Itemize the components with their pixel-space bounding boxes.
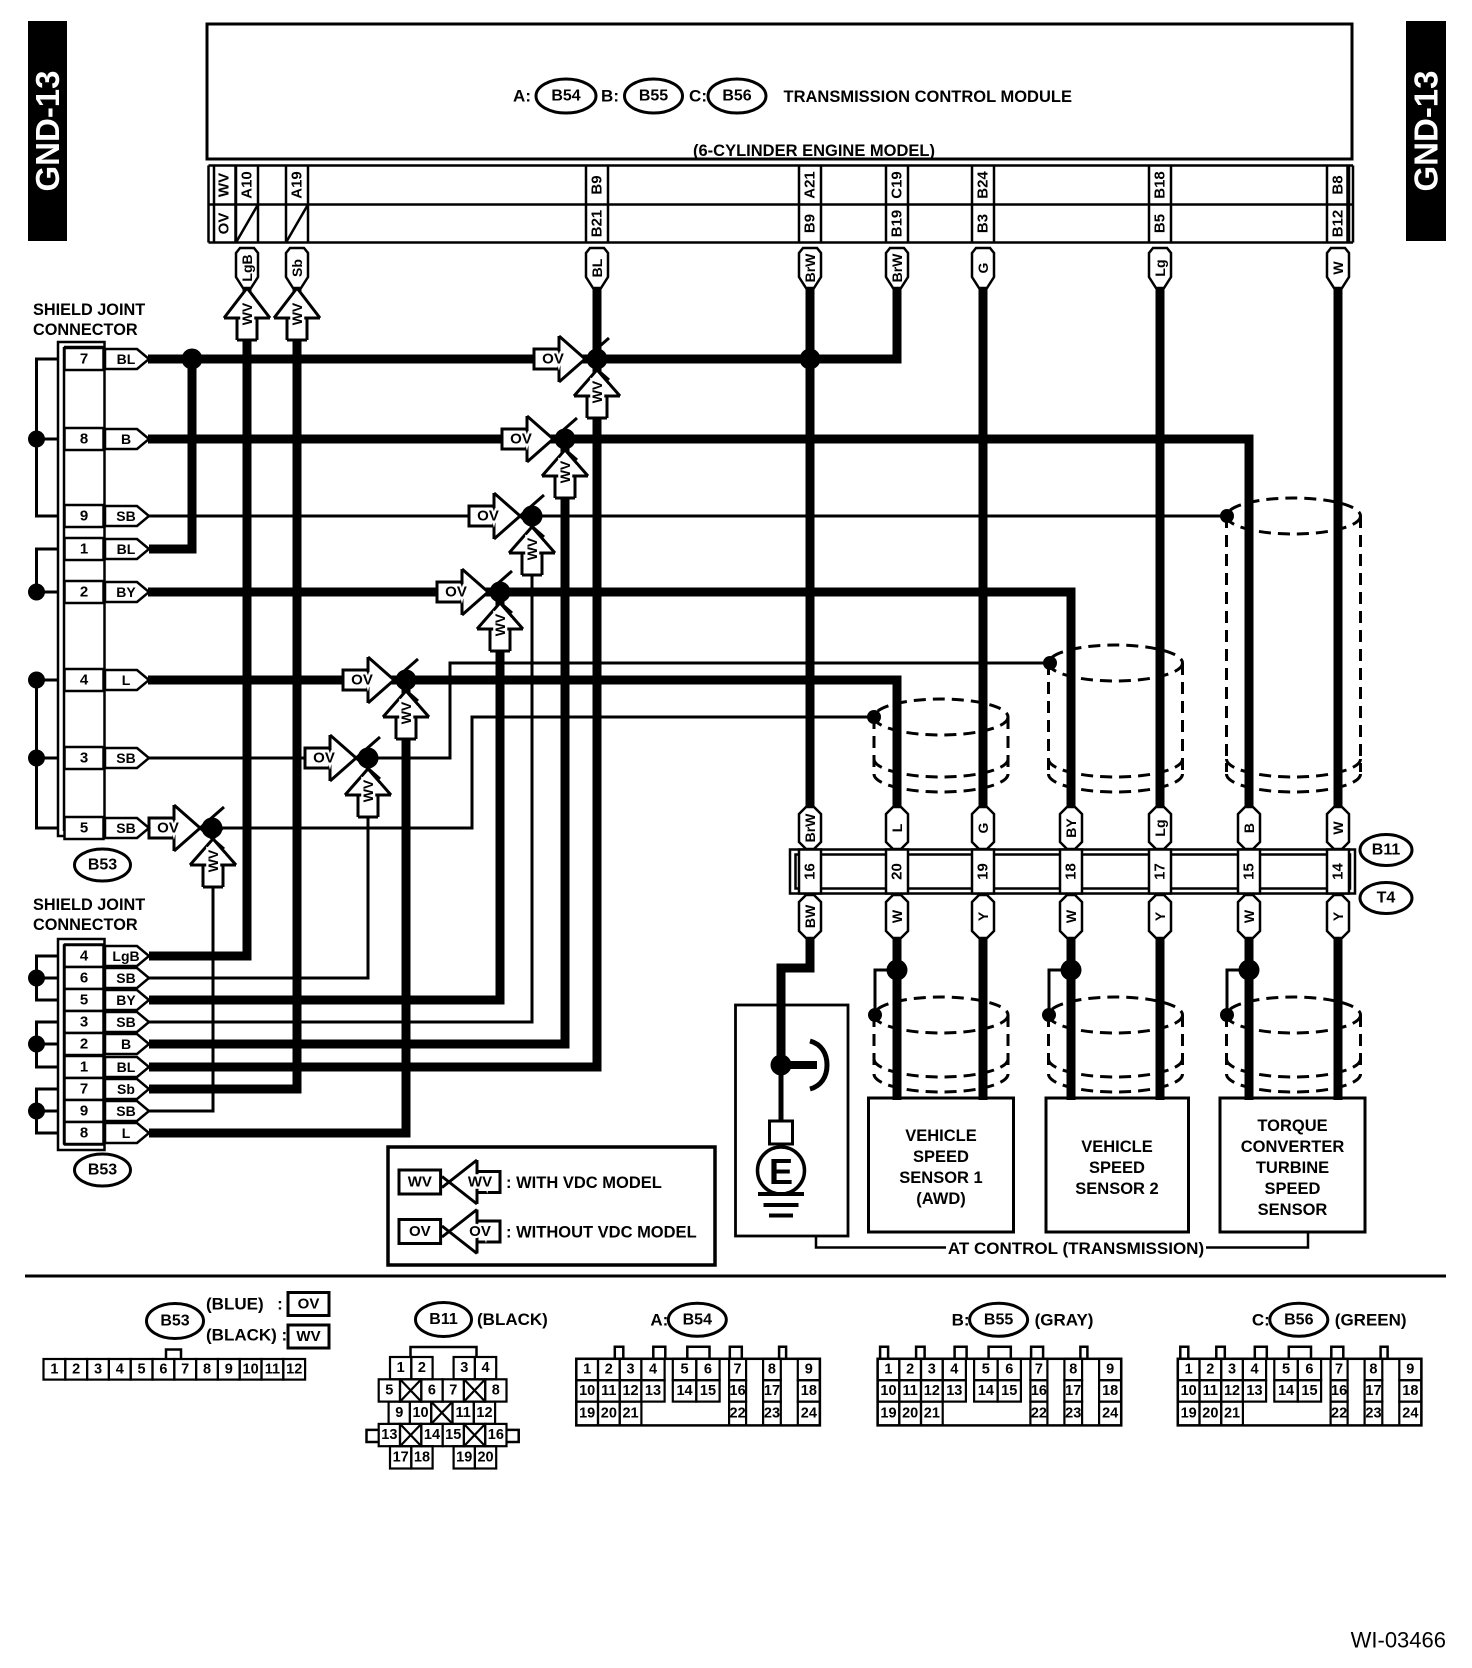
svg-text:15: 15 bbox=[700, 1383, 716, 1399]
svg-text:B53: B53 bbox=[88, 1162, 117, 1179]
svg-text:(BLUE): (BLUE) bbox=[206, 1295, 264, 1314]
TCM pin A19 bbox=[286, 166, 308, 243]
connector B53 lower pin 7 Sb bbox=[65, 1078, 150, 1100]
svg-text:11: 11 bbox=[265, 1361, 280, 1377]
wire SB row: upper B53 pin 5 to sensor1 shield bbox=[148, 717, 874, 828]
svg-text:(BLACK): (BLACK) bbox=[477, 1310, 548, 1329]
svg-text:7: 7 bbox=[80, 351, 88, 368]
svg-text:WI-03466: WI-03466 bbox=[1351, 1628, 1446, 1653]
strip pin 17 bbox=[1149, 850, 1171, 894]
svg-text:6: 6 bbox=[1305, 1362, 1313, 1378]
svg-text:SPEED: SPEED bbox=[1089, 1159, 1145, 1177]
shield joint connector B53 upper bbox=[33, 301, 145, 836]
svg-text:BW: BW bbox=[802, 904, 818, 928]
svg-text:13: 13 bbox=[381, 1427, 397, 1443]
svg-text:13: 13 bbox=[1246, 1383, 1262, 1399]
svg-text:14: 14 bbox=[1330, 863, 1347, 880]
WV arrow below Sb flag bbox=[274, 275, 320, 340]
svg-text:2: 2 bbox=[906, 1362, 914, 1378]
bracket group pins 1-2 bbox=[28, 549, 58, 601]
svg-text:13: 13 bbox=[946, 1383, 962, 1399]
AT connector strip B11/T4 bbox=[790, 850, 1355, 894]
svg-text:24: 24 bbox=[1402, 1406, 1418, 1422]
svg-text:SB: SB bbox=[116, 820, 135, 836]
svg-text:19: 19 bbox=[880, 1406, 896, 1422]
svg-text:3: 3 bbox=[94, 1361, 102, 1377]
node sensor1 shield lower dot bbox=[868, 1008, 882, 1022]
flag BrW above strip bbox=[799, 807, 821, 849]
wire LgB: TCM A10 down to lower B53 pin 4 bbox=[149, 288, 247, 956]
legend OV row bbox=[399, 1210, 697, 1254]
connector B53 upper pin 2 BY bbox=[65, 581, 150, 603]
OV arrow at SB5 junction bbox=[149, 805, 224, 851]
branch hook symbol bbox=[810, 1041, 827, 1089]
bracket group pins 7-9-8 bbox=[28, 1089, 58, 1133]
svg-text:20: 20 bbox=[889, 863, 906, 880]
wire BL row: upper B53 pin 7 to BrW junction bbox=[148, 355, 810, 364]
svg-text:TURBINE: TURBINE bbox=[1256, 1159, 1329, 1177]
svg-text:1: 1 bbox=[1185, 1362, 1193, 1378]
transmission control module U1 box bbox=[207, 24, 1352, 160]
svg-text:9: 9 bbox=[80, 1103, 88, 1120]
shield drain sensor1 bbox=[875, 970, 897, 1013]
flag W below strip bbox=[886, 895, 908, 938]
wire drop BL junction to lower B53 pin 1 handled above; drop B to pin 2 bbox=[149, 439, 565, 1044]
flag G above strip bbox=[972, 807, 994, 849]
flag Y below strip bbox=[1327, 895, 1349, 938]
bracket group pins 4-3-5 bbox=[28, 672, 58, 829]
vehicle speed sensor 1 box bbox=[869, 1098, 1014, 1232]
svg-text:E: E bbox=[769, 1151, 793, 1192]
wire drop SB(3) junction to lower B53 pin 6 bbox=[149, 758, 368, 978]
flag Sb below TCM bbox=[286, 248, 308, 288]
node SB3 junction dot bbox=[358, 748, 379, 769]
svg-text:SB: SB bbox=[116, 1103, 135, 1119]
svg-text:W: W bbox=[1241, 909, 1257, 923]
svg-text:SB: SB bbox=[116, 970, 135, 986]
svg-text:15: 15 bbox=[445, 1427, 461, 1443]
flag BrW below TCM bbox=[886, 248, 908, 288]
wire BL drop: junction down to lower B53 pin 1 bbox=[149, 359, 597, 1067]
svg-text:5: 5 bbox=[80, 820, 88, 837]
svg-text:6: 6 bbox=[704, 1362, 712, 1378]
svg-text:WV: WV bbox=[408, 1174, 432, 1191]
svg-text:23: 23 bbox=[1065, 1406, 1081, 1422]
svg-text:12: 12 bbox=[622, 1383, 638, 1399]
svg-text:4: 4 bbox=[116, 1361, 124, 1377]
svg-text:4: 4 bbox=[482, 1360, 490, 1376]
svg-text:18: 18 bbox=[1063, 863, 1080, 880]
svg-text:14: 14 bbox=[676, 1383, 692, 1399]
shield cylinder around L/G wires (sensor1, upper) bbox=[874, 699, 1008, 792]
wire B row: upper B53 pin 8 right, down to B11 pin 15 flag bbox=[148, 439, 1249, 810]
svg-text:Sb: Sb bbox=[117, 1081, 135, 1097]
strip pin 16 bbox=[799, 850, 821, 894]
vehicle speed sensor 2 box bbox=[1046, 1098, 1189, 1232]
connector B53 lower pin 6 SB bbox=[65, 967, 150, 989]
wire Y: B11 pin 14 to torque converter turbine speed sensor bbox=[1334, 937, 1343, 1100]
legend WV row bbox=[399, 1160, 662, 1204]
svg-text:(BLACK) :: (BLACK) : bbox=[206, 1326, 287, 1345]
svg-text:B53: B53 bbox=[160, 1313, 189, 1330]
wire BL link: upper B53 pin 1 up to pin 7 row bbox=[149, 359, 192, 549]
svg-text:OV: OV bbox=[469, 1223, 491, 1240]
svg-text:7: 7 bbox=[449, 1382, 457, 1398]
svg-text:1: 1 bbox=[80, 1059, 88, 1076]
svg-text:Lg: Lg bbox=[1152, 259, 1168, 276]
svg-text:T4: T4 bbox=[1377, 890, 1396, 907]
svg-text:5: 5 bbox=[385, 1382, 393, 1398]
svg-text:C:: C: bbox=[689, 87, 707, 106]
svg-text:21: 21 bbox=[924, 1406, 940, 1422]
wire Y: B11 pin 17 to vehicle speed sensor 2 bbox=[1156, 937, 1165, 1100]
svg-text:9: 9 bbox=[225, 1361, 233, 1377]
node B junction dot bbox=[555, 429, 576, 450]
svg-text:BL: BL bbox=[117, 541, 136, 557]
shield cylinder sensor1 lower bbox=[874, 997, 1008, 1092]
TCM pins B18/B5 bbox=[1149, 166, 1171, 243]
wire L row: upper B53 pin 4 right, down to B11 pin 20 flag bbox=[148, 680, 897, 810]
svg-text:B8: B8 bbox=[1330, 175, 1347, 194]
svg-text:8: 8 bbox=[492, 1382, 500, 1398]
svg-text:Y: Y bbox=[1330, 911, 1346, 921]
connector face B55 bbox=[952, 1303, 1094, 1336]
svg-text:B: B bbox=[121, 1036, 131, 1052]
node sensor1 shield dot bbox=[867, 710, 881, 724]
svg-text:16: 16 bbox=[730, 1383, 746, 1399]
svg-text:18: 18 bbox=[1102, 1383, 1118, 1399]
svg-text:19: 19 bbox=[1181, 1406, 1197, 1422]
flag L above strip bbox=[886, 807, 908, 849]
shield cylinder sensor2 lower bbox=[1049, 997, 1183, 1092]
svg-text:: WITH VDC MODEL: : WITH VDC MODEL bbox=[506, 1174, 662, 1192]
shield cylinder around BY/Lg wires (sensor2, upper) bbox=[1049, 645, 1183, 792]
svg-text:2: 2 bbox=[418, 1360, 426, 1376]
svg-text:10: 10 bbox=[579, 1383, 595, 1399]
wire BY row: upper B53 pin 2 right, down to B11 pin 18 flag bbox=[148, 592, 1071, 810]
svg-text:5: 5 bbox=[681, 1362, 689, 1378]
wire Sb: TCM A19 down to lower B53 pin 7 bbox=[149, 288, 297, 1089]
svg-text:14: 14 bbox=[424, 1427, 440, 1443]
svg-text:OV: OV bbox=[477, 508, 499, 525]
svg-text:C:: C: bbox=[1252, 1310, 1270, 1329]
svg-text:8: 8 bbox=[1069, 1362, 1077, 1378]
node torque shield lower dot bbox=[1220, 1008, 1234, 1022]
flag BL below TCM bbox=[586, 248, 608, 288]
svg-text:B11: B11 bbox=[429, 1311, 458, 1328]
OV arrow at SB3 junction bbox=[305, 735, 380, 781]
wire SB row: upper B53 pin 9 to torque shield bbox=[148, 515, 1227, 518]
svg-text:BY: BY bbox=[116, 992, 136, 1008]
AT CONTROL (TRANSMISSION) label bbox=[816, 1232, 1308, 1258]
svg-text:WV: WV bbox=[239, 302, 255, 325]
connector B53 lower pin 3 SB bbox=[65, 1011, 150, 1033]
svg-text:SENSOR 2: SENSOR 2 bbox=[1075, 1180, 1158, 1198]
svg-text:17: 17 bbox=[393, 1449, 409, 1465]
TCM connector pin strip bbox=[209, 166, 1354, 243]
node sensor2 shield dot bbox=[1043, 656, 1057, 670]
svg-text:10: 10 bbox=[412, 1405, 428, 1421]
svg-text:OV: OV bbox=[157, 820, 179, 837]
svg-text:WV: WV bbox=[360, 779, 376, 802]
svg-text:SHIELD JOINT: SHIELD JOINT bbox=[33, 301, 145, 319]
svg-text:19: 19 bbox=[456, 1449, 472, 1465]
wire drop SB(9) junction to lower B53 pin 3 bbox=[149, 516, 532, 1022]
separator line bbox=[25, 1275, 1446, 1278]
TCM pins B8/B12 bbox=[1327, 166, 1349, 243]
svg-text:16: 16 bbox=[802, 863, 819, 880]
svg-text:W: W bbox=[1330, 821, 1346, 835]
node torque shield dot bbox=[1220, 509, 1234, 523]
bracket group pins 4-6-5 bbox=[28, 956, 58, 1000]
strip pin 19 bbox=[972, 850, 994, 894]
svg-text::: : bbox=[277, 1295, 283, 1314]
svg-text:A:: A: bbox=[513, 87, 531, 106]
svg-text:4: 4 bbox=[80, 948, 89, 965]
svg-text:20: 20 bbox=[1202, 1406, 1218, 1422]
svg-text:9: 9 bbox=[1106, 1362, 1114, 1378]
wire Lg: TCM B18/B5 down to B11 pin 17 flag bbox=[1156, 288, 1165, 810]
svg-text:6: 6 bbox=[428, 1382, 436, 1398]
connector B53 upper pin 9 SB bbox=[65, 505, 150, 527]
connector face B54 bbox=[650, 1303, 726, 1336]
svg-text:5: 5 bbox=[982, 1362, 990, 1378]
svg-text:22: 22 bbox=[1031, 1406, 1047, 1422]
svg-text:SPEED: SPEED bbox=[1265, 1180, 1321, 1198]
node SB9 junction dot bbox=[522, 506, 543, 527]
svg-text:SENSOR: SENSOR bbox=[1258, 1201, 1328, 1219]
connector label B53 lower bbox=[75, 1154, 131, 1186]
TCM pins B24/B3 bbox=[972, 166, 994, 243]
svg-text:WV: WV bbox=[205, 849, 221, 872]
svg-text:12: 12 bbox=[1224, 1383, 1240, 1399]
connector label B11 bbox=[1360, 835, 1412, 866]
connector B53 upper pin 4 L bbox=[65, 669, 150, 691]
shield joint connector B53 lower bbox=[33, 896, 145, 1150]
svg-text:(AWD): (AWD) bbox=[916, 1190, 965, 1208]
svg-text:1: 1 bbox=[50, 1361, 58, 1377]
svg-text:AT CONTROL (TRANSMISSION): AT CONTROL (TRANSMISSION) bbox=[948, 1239, 1204, 1258]
svg-text:WV: WV bbox=[524, 537, 540, 560]
svg-text:WV: WV bbox=[289, 302, 305, 325]
svg-text:18: 18 bbox=[414, 1449, 430, 1465]
svg-text:13: 13 bbox=[645, 1383, 661, 1399]
wire W: B11 pin 15 to torque converter turbine speed sensor bbox=[1245, 937, 1254, 1100]
wire G: TCM B24/B3 down to B11 pin 19 flag bbox=[979, 288, 988, 810]
svg-text:A:: A: bbox=[650, 1310, 668, 1329]
svg-text:A21: A21 bbox=[802, 171, 819, 199]
svg-text:5: 5 bbox=[80, 992, 88, 1009]
svg-text:B:: B: bbox=[601, 87, 619, 106]
svg-text:G: G bbox=[975, 822, 991, 833]
svg-text:9: 9 bbox=[1406, 1362, 1414, 1378]
svg-text:2: 2 bbox=[80, 1036, 88, 1053]
shield drain sensor2 bbox=[1049, 970, 1071, 1013]
OV arrow at SB9 junction bbox=[469, 493, 544, 539]
svg-text:OV: OV bbox=[510, 431, 532, 448]
svg-text:SHIELD JOINT: SHIELD JOINT bbox=[33, 896, 145, 914]
svg-text:11: 11 bbox=[902, 1383, 917, 1399]
svg-text:8: 8 bbox=[203, 1361, 211, 1377]
wire BrW: TCM C19/B19 down, left to BrW junction bbox=[810, 288, 897, 359]
svg-text:TORQUE: TORQUE bbox=[1257, 1117, 1327, 1135]
svg-text:B55: B55 bbox=[984, 1311, 1013, 1328]
ground branch node bbox=[771, 972, 818, 1076]
OV arrow at L junction bbox=[343, 657, 418, 703]
node pin7/pin1 dot bbox=[182, 349, 203, 370]
svg-text:B12: B12 bbox=[1330, 210, 1347, 238]
svg-text:19: 19 bbox=[975, 863, 992, 880]
svg-text:20: 20 bbox=[477, 1449, 493, 1465]
ground lead, terminal square bbox=[770, 1068, 793, 1148]
wire W: B11 pin 18 to vehicle speed sensor 2 bbox=[1067, 937, 1076, 1100]
svg-text:15: 15 bbox=[1301, 1383, 1317, 1399]
svg-text:3: 3 bbox=[928, 1362, 936, 1378]
svg-text:BL: BL bbox=[117, 1059, 136, 1075]
flag Y below strip bbox=[1149, 895, 1171, 938]
svg-text:7: 7 bbox=[734, 1362, 742, 1378]
svg-text:8: 8 bbox=[1369, 1362, 1377, 1378]
svg-text:: WITHOUT VDC MODEL: : WITHOUT VDC MODEL bbox=[506, 1224, 697, 1242]
svg-text:1: 1 bbox=[884, 1362, 892, 1378]
svg-text:10: 10 bbox=[880, 1383, 896, 1399]
page label GND-13 left banner bbox=[28, 21, 67, 241]
svg-text:C19: C19 bbox=[889, 171, 906, 199]
node BY junction dot bbox=[490, 582, 511, 603]
wire BrW: TCM A21/B9 down to B11 pin 16 flag bbox=[806, 288, 815, 810]
svg-text:OV: OV bbox=[409, 1223, 431, 1240]
connector B53 upper pin 8 B bbox=[65, 428, 150, 450]
svg-text:B9: B9 bbox=[802, 214, 819, 233]
svg-text:3: 3 bbox=[627, 1362, 635, 1378]
svg-text:23: 23 bbox=[1365, 1406, 1381, 1422]
svg-text:BY: BY bbox=[116, 584, 136, 600]
svg-text:OV: OV bbox=[445, 584, 467, 601]
svg-text:8: 8 bbox=[768, 1362, 776, 1378]
strip pin 20 bbox=[886, 850, 908, 894]
connector face B53 pin row bbox=[44, 1350, 306, 1380]
svg-text:CONVERTER: CONVERTER bbox=[1241, 1138, 1345, 1156]
connector face B11 bbox=[416, 1303, 548, 1337]
svg-text:SB: SB bbox=[116, 508, 135, 524]
node sensor2 shield lower dot bbox=[1042, 1008, 1056, 1022]
svg-text:G: G bbox=[975, 262, 991, 273]
svg-text:B54: B54 bbox=[551, 88, 580, 105]
svg-text:W: W bbox=[1063, 909, 1079, 923]
bracket group pins 7-9 bbox=[28, 359, 58, 516]
flag G below TCM bbox=[972, 248, 994, 288]
page label GND-13 right banner bbox=[1406, 21, 1446, 241]
svg-text:18: 18 bbox=[1402, 1383, 1418, 1399]
wire drop L junction to lower B53 pin 8 bbox=[149, 680, 406, 1133]
node sensor1 drain dot bbox=[887, 960, 908, 981]
TCM pins C19/B19 bbox=[886, 166, 908, 243]
connector B53 lower pin 1 BL bbox=[65, 1056, 150, 1078]
svg-text:7: 7 bbox=[80, 1081, 88, 1098]
svg-text:Y: Y bbox=[1152, 911, 1168, 921]
svg-text:WV: WV bbox=[492, 613, 508, 636]
svg-text:10: 10 bbox=[243, 1361, 259, 1377]
svg-text:BL: BL bbox=[589, 258, 605, 277]
bracket group pins 3-2-1 bbox=[28, 1022, 58, 1067]
flag Lg above strip bbox=[1149, 807, 1171, 849]
wire W: TCM B8/B12 down to B11 pin 14 flag bbox=[1334, 288, 1343, 810]
svg-text:L: L bbox=[122, 1125, 131, 1141]
svg-text:15: 15 bbox=[1241, 863, 1258, 880]
svg-text:9: 9 bbox=[395, 1405, 403, 1421]
svg-text:WV: WV bbox=[557, 460, 573, 483]
svg-text:B5: B5 bbox=[1152, 214, 1169, 233]
svg-text:B18: B18 bbox=[1152, 171, 1169, 199]
connector B53 lower pin 8 L bbox=[65, 1122, 150, 1144]
svg-text:B9: B9 bbox=[589, 175, 606, 194]
flag B above strip bbox=[1238, 807, 1260, 849]
svg-text:B3: B3 bbox=[975, 214, 992, 233]
svg-text:B56: B56 bbox=[1284, 1311, 1313, 1328]
WV arrow below B junction bbox=[542, 439, 588, 498]
svg-text:4: 4 bbox=[649, 1362, 657, 1378]
svg-text:WV: WV bbox=[468, 1174, 492, 1191]
shield cylinder around B/W wires (torque, upper) bbox=[1227, 498, 1361, 792]
svg-text:(GREEN): (GREEN) bbox=[1335, 1310, 1407, 1329]
svg-text:22: 22 bbox=[730, 1406, 746, 1422]
svg-text:(6-CYLINDER ENGINE MODEL): (6-CYLINDER ENGINE MODEL) bbox=[693, 142, 935, 160]
svg-text:2: 2 bbox=[605, 1362, 613, 1378]
svg-text:OV: OV bbox=[313, 750, 335, 767]
svg-text:18: 18 bbox=[801, 1383, 817, 1399]
svg-text:6: 6 bbox=[1005, 1362, 1013, 1378]
svg-text:1: 1 bbox=[583, 1362, 591, 1378]
svg-text:17: 17 bbox=[764, 1383, 780, 1399]
wire drop SB(5) junction to lower B53 pin 9 bbox=[149, 828, 213, 1111]
svg-text:11: 11 bbox=[455, 1405, 470, 1421]
svg-text:3: 3 bbox=[1228, 1362, 1236, 1378]
node BL junction dot bbox=[587, 349, 608, 370]
svg-text:WV: WV bbox=[589, 380, 605, 403]
svg-text:4: 4 bbox=[1250, 1362, 1258, 1378]
svg-text:VEHICLE: VEHICLE bbox=[905, 1127, 977, 1145]
flag Y below strip bbox=[972, 895, 994, 938]
flag W below strip bbox=[1238, 895, 1260, 938]
svg-text:3: 3 bbox=[80, 750, 88, 767]
TCM pin A10 bbox=[236, 166, 258, 243]
svg-text:BY: BY bbox=[1063, 818, 1079, 838]
shield drain torque sensor bbox=[1227, 970, 1249, 1013]
svg-text:Sb: Sb bbox=[289, 259, 305, 277]
svg-text:7: 7 bbox=[181, 1361, 189, 1377]
svg-text:B11: B11 bbox=[1372, 842, 1401, 859]
WV arrow below SB3 junction bbox=[345, 758, 391, 817]
flag Lg below TCM bbox=[1149, 248, 1171, 288]
svg-text:B53: B53 bbox=[88, 857, 117, 874]
ground symbol E bbox=[758, 1147, 805, 1194]
wire Y: B11 pin 19 to vehicle speed sensor 1 bbox=[979, 937, 988, 1100]
svg-text:LgB: LgB bbox=[112, 948, 139, 964]
svg-text:17: 17 bbox=[1365, 1383, 1381, 1399]
connector label B53 upper bbox=[75, 849, 131, 881]
svg-text:4: 4 bbox=[950, 1362, 958, 1378]
connector B53 lower pin 2 B bbox=[65, 1033, 150, 1055]
WV arrow below L junction bbox=[383, 680, 429, 739]
connector B53 lower pin 5 BY bbox=[65, 989, 150, 1011]
svg-text:W: W bbox=[1330, 261, 1346, 275]
svg-text:7: 7 bbox=[1035, 1362, 1043, 1378]
svg-text:WV: WV bbox=[296, 1328, 320, 1345]
connector B53 lower pin 4 LgB bbox=[65, 945, 150, 967]
connector face B53 legend bbox=[147, 1293, 330, 1349]
svg-text:9: 9 bbox=[80, 508, 88, 525]
svg-text:B56: B56 bbox=[722, 88, 751, 105]
